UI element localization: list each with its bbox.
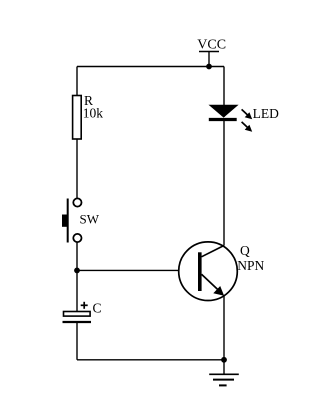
svg-text:NPN: NPN: [237, 258, 264, 273]
svg-text:VCC: VCC: [197, 37, 226, 52]
svg-text:Q: Q: [240, 243, 250, 258]
svg-text:LED: LED: [253, 106, 279, 121]
svg-text:C: C: [93, 301, 102, 316]
svg-text:SW: SW: [80, 212, 100, 227]
svg-text:10k: 10k: [83, 105, 104, 120]
